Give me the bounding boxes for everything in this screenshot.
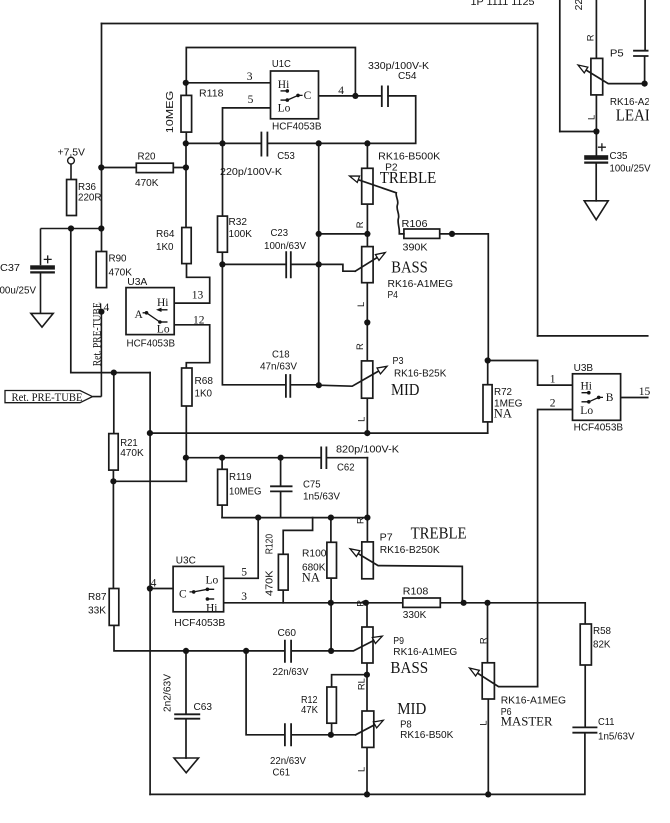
svg-text:R118: R118 [199, 88, 224, 99]
svg-text:TREBLE: TREBLE [380, 168, 436, 187]
svg-text:P4: P4 [388, 290, 399, 301]
wire x318 column [318, 143, 320, 385]
wire U3B pin2 down column [538, 410, 573, 687]
potentiometer P4 body [362, 247, 373, 283]
svg-text:C11: C11 [598, 717, 615, 728]
svg-text:R72: R72 [494, 387, 512, 398]
svg-text:100n/63V: 100n/63V [264, 241, 306, 252]
resistor R90 [96, 252, 106, 288]
svg-text:L: L [586, 115, 597, 120]
svg-text:RL: RL [356, 678, 367, 690]
op-amp U3A box [126, 288, 174, 335]
svg-text:RK16-A1MEG: RK16-A1MEG [388, 279, 454, 290]
svg-text:R108: R108 [403, 586, 429, 597]
svg-text:2: 2 [550, 398, 556, 410]
svg-text:13: 13 [192, 290, 204, 302]
svg-text:L: L [355, 417, 366, 422]
svg-text:MASTER: MASTER [501, 715, 553, 729]
wire U1C pin3 [186, 82, 270, 84]
svg-text:Hi: Hi [581, 381, 593, 393]
wire x186 column [185, 143, 187, 227]
svg-text:4: 4 [338, 85, 344, 97]
svg-text:BASS: BASS [391, 258, 428, 277]
wiper arrow P7 [348, 546, 360, 557]
resistor R72 [483, 385, 492, 422]
svg-text:15: 15 [639, 386, 651, 398]
wire R21 top [113, 373, 115, 434]
svg-text:R: R [355, 517, 366, 524]
resistor R119 [218, 469, 228, 505]
wire P3 bottom stub [366, 398, 368, 433]
resistor R87 [109, 589, 119, 626]
wire U3A pin13 staircase [174, 264, 210, 304]
pot terminal letter P9 R [355, 600, 366, 607]
wire bottom bus [150, 733, 585, 795]
svg-text:C: C [179, 588, 187, 600]
resistor R120 [278, 554, 288, 590]
wire R72 stubs [487, 361, 489, 434]
svg-text:MID: MID [397, 699, 426, 718]
svg-text:3: 3 [247, 71, 253, 83]
svg-text:U3B: U3B [574, 363, 594, 374]
switch interior U3A [135, 297, 170, 335]
svg-text:L: L [355, 302, 366, 307]
svg-text:BASS: BASS [390, 658, 428, 677]
svg-text:82K: 82K [593, 640, 611, 651]
wire right bus exit [538, 335, 648, 337]
wire R32 stubs [221, 143, 223, 264]
capacitor C60 [285, 640, 291, 663]
capacitor C54 [382, 86, 388, 108]
svg-text:R64: R64 [156, 229, 175, 240]
wire R119 stubs [221, 458, 223, 518]
potentiometer P6 body [482, 663, 494, 699]
wire P9-P8 column [366, 603, 368, 795]
wire R68 bottom column [185, 406, 187, 481]
resistor R118 [181, 95, 192, 132]
wire C35 to ground [595, 164, 597, 201]
op-amp U3C box [173, 566, 224, 611]
potentiometer P8 body [362, 711, 374, 747]
svg-text:R20: R20 [138, 152, 156, 163]
svg-text:L: L [477, 720, 488, 725]
wire y458 node [186, 457, 367, 459]
pot terminal letter P7 R [355, 517, 366, 524]
terminal +7.5V [68, 157, 75, 164]
op-amp U3B box [573, 374, 621, 421]
ground below C63 [174, 758, 199, 773]
potentiometer P2 body [362, 168, 373, 204]
wire R21-R87 link [112, 470, 114, 588]
svg-text:MID: MID [391, 380, 419, 399]
capacitor C61 [285, 723, 291, 746]
svg-text:Lo: Lo [580, 405, 593, 417]
svg-text:R90: R90 [109, 254, 127, 265]
svg-text:R: R [354, 221, 365, 228]
wire P2 wiper link squiggle [352, 178, 404, 234]
pot terminal letter P2 R [354, 221, 365, 228]
svg-text:820p/100V-K: 820p/100V-K [336, 444, 399, 455]
ground below C37 [31, 313, 53, 327]
pot terminal letter P9-P8 RL [356, 678, 367, 690]
svg-text:390K: 390K [403, 242, 428, 253]
svg-text:C63: C63 [194, 702, 213, 713]
wiper arrow P8 [373, 717, 385, 728]
wire R12 link [332, 675, 367, 735]
pot terminal letter P4 L [355, 302, 366, 307]
svg-text:Hi: Hi [278, 79, 290, 91]
wire U3C pin5 branch [224, 518, 259, 579]
svg-text:R120: R120 [264, 534, 275, 555]
svg-text:R87: R87 [88, 592, 107, 603]
wire R120 staircase [283, 518, 312, 603]
svg-text:R106: R106 [402, 219, 428, 230]
wire R106 right [440, 234, 489, 361]
pot terminal letter P3 R [354, 343, 365, 350]
svg-text:33K: 33K [88, 606, 106, 617]
svg-text:R32: R32 [229, 217, 248, 228]
svg-text:Ret. PRE-TUBE: Ret. PRE-TUBE [90, 302, 104, 366]
svg-text:5: 5 [241, 566, 247, 578]
svg-text:C75: C75 [303, 480, 321, 491]
ground below C35 [584, 201, 608, 220]
svg-text:C35: C35 [610, 151, 628, 162]
wire C75 stubs [280, 458, 282, 518]
svg-text:P7: P7 [380, 533, 393, 544]
svg-text:R: R [355, 600, 366, 607]
svg-text:330K: 330K [403, 610, 427, 621]
wire to U3B pin1 [488, 361, 573, 386]
pot terminal letter P6 R [477, 637, 488, 644]
svg-text:P5: P5 [610, 49, 624, 60]
svg-text:220p/100V-K: 220p/100V-K [220, 167, 282, 178]
svg-text:470K: 470K [264, 570, 275, 596]
wire P5 bottom node [560, 95, 597, 155]
capacitor C11 [572, 727, 597, 732]
svg-text:RK16-B50K: RK16-B50K [400, 730, 453, 741]
wire R87 bottom [114, 625, 285, 651]
wire x150 column [149, 373, 151, 795]
wire P6 wiper [472, 669, 538, 686]
svg-text:U3C: U3C [176, 555, 196, 566]
svg-text:22n/63V: 22n/63V [273, 667, 309, 678]
wire node main y144 [186, 96, 416, 143]
wire P4-P3 link [366, 283, 368, 361]
wire P7 wiper [353, 550, 463, 603]
wiper arrow P2 [348, 173, 359, 183]
svg-text:R: R [585, 34, 596, 41]
svg-text:R119: R119 [229, 472, 252, 483]
wire R118 stubs [185, 83, 187, 144]
capacitor C23 [286, 251, 291, 278]
svg-text:2n2/63V: 2n2/63V [162, 674, 173, 712]
svg-text:R36: R36 [78, 182, 96, 193]
svg-text:NA: NA [302, 570, 320, 584]
svg-text:RK16-B25K: RK16-B25K [394, 369, 446, 380]
rotated net name Ret. PRE-TUBE [90, 302, 104, 366]
capacitor C62 [321, 447, 326, 470]
wire C62 right drop [366, 458, 368, 542]
wire y481 link [113, 480, 186, 482]
svg-text:R58: R58 [593, 626, 611, 637]
svg-text:220K: 220K [574, 0, 585, 10]
label C63 [162, 674, 173, 712]
wire top bus [102, 23, 538, 25]
resistor R36 [67, 180, 77, 216]
wire step to P4 wiper [319, 264, 356, 271]
svg-text:RK16-A1MEG: RK16-A1MEG [501, 695, 566, 706]
svg-text:Ret. PRE-TUBE: Ret. PRE-TUBE [12, 390, 83, 404]
wire R100 stubs [330, 518, 332, 651]
wire P2 stubs [366, 143, 368, 246]
svg-text:Lo: Lo [157, 323, 170, 335]
svg-text:1: 1 [550, 373, 556, 385]
svg-text:C23: C23 [271, 228, 289, 239]
svg-text:A: A [135, 309, 144, 321]
svg-text:R68: R68 [195, 376, 214, 387]
svg-text:Lo: Lo [206, 575, 219, 587]
resistor R20 [136, 163, 173, 172]
resistor R32 [218, 216, 228, 252]
capacitor C18 [286, 374, 290, 398]
wire P5 feed columns [560, 0, 597, 132]
pot terminal letter P5 R [585, 34, 596, 41]
pot terminal letter P3 L [355, 417, 366, 422]
resistor R12 [327, 687, 337, 723]
resistor R106 [404, 229, 440, 238]
wire P8 wiper [356, 721, 382, 735]
wire P6 stubs [487, 603, 490, 795]
wire y433 bus [150, 432, 488, 434]
svg-text:C37: C37 [0, 263, 20, 274]
svg-text:C54: C54 [398, 71, 417, 82]
wire U1C pin5 [223, 108, 271, 143]
svg-text:C61: C61 [273, 768, 291, 779]
svg-text:12: 12 [193, 314, 205, 326]
svg-text:220R: 220R [78, 193, 102, 204]
svg-text:Hi: Hi [206, 603, 218, 615]
capacitor C75 [270, 486, 292, 491]
wire U1C pin4 output [319, 95, 382, 97]
wire U3C pin4 [150, 588, 173, 590]
wire right bus vertical [537, 24, 539, 336]
svg-text:5: 5 [248, 94, 254, 106]
svg-text:HCF4053B: HCF4053B [272, 122, 322, 133]
svg-text:U1C: U1C [272, 59, 291, 70]
svg-text:C: C [304, 90, 312, 102]
wire C18 branch [222, 264, 318, 384]
capacitor C37 electrolytic [30, 229, 101, 314]
label R120 [264, 534, 275, 555]
wire P3 wiper line [319, 367, 385, 386]
svg-text:47n/63V: 47n/63V [260, 362, 297, 373]
svg-text:1K0: 1K0 [156, 242, 174, 253]
svg-text:RK16-B500K: RK16-B500K [378, 151, 440, 162]
svg-text:R: R [354, 343, 365, 350]
wiper arrow P3 [377, 363, 389, 374]
wire inner top (U1C feedback) [186, 48, 355, 96]
wiper arrow P5 [576, 62, 588, 73]
svg-text:R: R [477, 637, 488, 644]
wire C63 branch [185, 651, 187, 758]
wire C60 right to P9 wiper [291, 637, 380, 651]
wire R108 right bus [440, 603, 585, 624]
resistor R64 [182, 228, 191, 264]
svg-text:C53: C53 [277, 151, 295, 162]
capacitor C63 [174, 714, 200, 718]
svg-text:+7,5V: +7,5V [58, 147, 86, 158]
svg-text:HCF4053B: HCF4053B [574, 423, 624, 434]
potentiometer P3 body [362, 361, 373, 398]
wire R58 to C11 [584, 665, 586, 727]
pot terminal letter P5 L [586, 115, 597, 120]
svg-text:3: 3 [241, 591, 247, 603]
pot terminal letter P6 L [477, 720, 488, 725]
node flag Ret. PRE-TUBE [5, 312, 101, 403]
svg-text:NA: NA [494, 407, 512, 421]
wire P4 wiper line [355, 254, 383, 272]
potentiometer P5 body [591, 58, 603, 95]
svg-text:RK16-A1MEG: RK16-A1MEG [393, 647, 457, 658]
svg-text:RK16-B250K: RK16-B250K [380, 545, 440, 556]
svg-text:TREBLE: TREBLE [411, 524, 467, 543]
svg-text:1P 1111 1125: 1P 1111 1125 [471, 0, 535, 8]
svg-text:L: L [356, 767, 367, 772]
wire U3C pin3 bus [224, 602, 403, 604]
svg-text:22n/63V: 22n/63V [270, 756, 306, 767]
resistor R68 [182, 368, 192, 406]
svg-text:1n5/63V: 1n5/63V [598, 732, 635, 743]
capacitor C35 electrolytic [584, 143, 608, 162]
svg-text:P8: P8 [400, 720, 412, 731]
capacitor C36 plates [633, 51, 648, 56]
svg-text:10MEG: 10MEG [229, 487, 262, 498]
svg-text:4: 4 [151, 577, 157, 589]
svg-text:470K: 470K [135, 178, 159, 189]
svg-text:10MEG: 10MEG [165, 91, 176, 134]
svg-text:C60: C60 [278, 628, 297, 639]
svg-text:100u/25V: 100u/25V [0, 285, 36, 296]
svg-text:C62: C62 [337, 463, 355, 474]
wire C61 branch [246, 651, 356, 735]
svg-text:470K: 470K [109, 268, 133, 279]
svg-text:C18: C18 [272, 350, 290, 361]
resistor R21 [109, 434, 118, 471]
wire y234 node [319, 233, 368, 235]
capacitor C53 [261, 132, 267, 157]
wire U3B pin15 [621, 397, 648, 399]
svg-text:Lo: Lo [278, 103, 291, 115]
pot terminal letter P8 L [356, 767, 367, 772]
wiper arrow P4 [375, 250, 387, 261]
switch interior U1C [278, 79, 312, 115]
svg-text:P3: P3 [393, 356, 404, 367]
svg-text:470K: 470K [120, 448, 144, 459]
svg-text:47K: 47K [301, 705, 318, 716]
potentiometer P7 body [362, 542, 374, 579]
svg-text:R100: R100 [302, 549, 327, 560]
op-amp U1C box [271, 71, 319, 119]
svg-text:HCF4053B: HCF4053B [174, 618, 225, 629]
svg-text:B: B [606, 392, 614, 404]
wire supply drop to lower section [71, 229, 150, 373]
potentiometer P9 body [362, 627, 373, 663]
resistor R58 [580, 624, 591, 665]
switch interior U3C [179, 575, 219, 615]
wiper arrow P6 [468, 665, 480, 676]
svg-text:HCF4053B: HCF4053B [127, 339, 176, 350]
svg-text:Hi: Hi [157, 297, 169, 309]
rotated value 220K cut at top [574, 0, 585, 10]
wire R20 leads [101, 167, 186, 169]
svg-text:1n5/63V: 1n5/63V [303, 492, 340, 503]
svg-text:1K0: 1K0 [195, 389, 213, 400]
wire U3A pin12 staircase [174, 325, 210, 368]
resistor R108 [403, 598, 441, 607]
wiper arrow P9 [372, 633, 384, 643]
switch interior U3B [580, 381, 614, 417]
wire y518 node [222, 517, 367, 519]
wire left supply column [101, 24, 103, 252]
svg-text:P9: P9 [393, 636, 404, 647]
svg-text:100K: 100K [229, 229, 253, 240]
wire cap top lead [644, 0, 646, 50]
svg-text:100u/25V: 100u/25V [610, 164, 651, 175]
resistor R100 [327, 542, 337, 578]
wire C23 node [222, 263, 318, 265]
wire P5 wiper [580, 57, 645, 84]
